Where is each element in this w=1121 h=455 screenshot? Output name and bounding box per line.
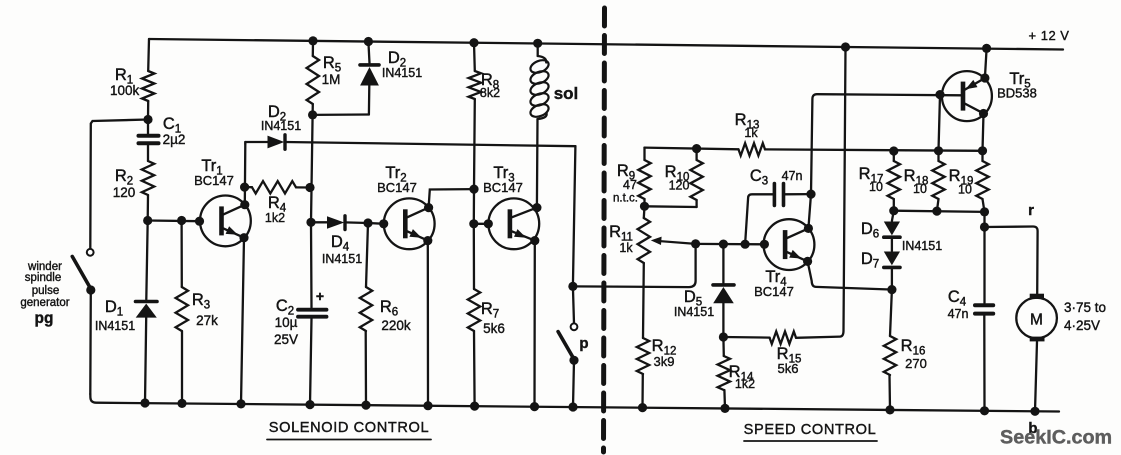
node Tr2 collector xyxy=(424,203,433,212)
node base at Tr1 xyxy=(195,217,204,226)
svg-text:R6: R6 xyxy=(380,298,398,319)
label winder spindle pulse generator pg xyxy=(20,261,69,327)
ground node D1 xyxy=(140,398,149,407)
wire R2 to base row xyxy=(147,195,150,221)
node Tr5 collector xyxy=(979,109,988,118)
label +12V xyxy=(1029,28,1070,43)
wire Tr2 emitter to ground xyxy=(427,241,430,406)
wire R5 node down to D4 node xyxy=(311,115,313,222)
svg-text:47: 47 xyxy=(623,178,637,192)
resistor R1 xyxy=(110,66,154,101)
svg-text:1k2: 1k2 xyxy=(265,211,285,225)
wire Tr3 emitter to ground xyxy=(533,241,536,407)
svg-text:120: 120 xyxy=(669,179,690,193)
svg-text:D4: D4 xyxy=(331,233,350,254)
ground node Tr2 emitter xyxy=(423,401,432,410)
svg-text:1k2: 1k2 xyxy=(735,377,755,391)
svg-text:1M: 1M xyxy=(322,72,341,87)
node R1/C1/stub xyxy=(143,115,152,124)
node Tr3 collector xyxy=(532,203,541,212)
diode D6 body xyxy=(861,220,942,253)
node Tr1 collector xyxy=(240,200,249,209)
node R17 top xyxy=(889,146,898,155)
wire R9/R10/R13 row xyxy=(645,148,739,150)
node Tr3 base edge xyxy=(484,219,493,228)
node R18 bottom xyxy=(932,207,941,216)
label b xyxy=(1028,420,1037,437)
node base row at Tr4 xyxy=(760,240,769,249)
capacitor C3 xyxy=(745,167,811,244)
node Tr2 base xyxy=(379,219,388,228)
potentiometer R11 xyxy=(609,206,650,263)
title SOLENOID CONTROL xyxy=(267,420,431,440)
node rail/D2v xyxy=(364,37,373,46)
node switch p top xyxy=(568,282,577,291)
wire Tr1 emitter to ground xyxy=(241,238,244,404)
node D4 left xyxy=(306,218,315,227)
node R19 bottom xyxy=(980,207,989,216)
watermark SeekIC.com xyxy=(1000,427,1112,449)
svg-text:BC147: BC147 xyxy=(754,284,794,299)
svg-text:270: 270 xyxy=(905,356,927,371)
resistor R12 xyxy=(637,337,677,408)
transistor Tr4 xyxy=(754,219,814,299)
svg-text:27k: 27k xyxy=(196,313,218,328)
node Tr2 emitter xyxy=(423,236,432,245)
wire R1 to C1 node xyxy=(147,101,149,120)
capacitor C4 xyxy=(948,227,994,411)
resistor R8 xyxy=(469,43,501,189)
svg-text:10µ: 10µ xyxy=(275,315,298,330)
svg-text:BC147: BC147 xyxy=(483,180,523,195)
node rail/sol xyxy=(533,39,542,48)
svg-text:p: p xyxy=(579,335,588,352)
svg-text:r: r xyxy=(1028,202,1034,219)
node base row / C3 xyxy=(741,240,750,249)
svg-text:25V: 25V xyxy=(274,332,298,347)
svg-text:4·25V: 4·25V xyxy=(1064,318,1100,333)
wire Tr3 collector to sol xyxy=(536,119,539,208)
resistor R9 (n.t.c.) xyxy=(613,148,651,207)
capacitor C2 xyxy=(274,222,327,404)
ground node R14 xyxy=(720,404,729,413)
diode D4 xyxy=(311,216,368,266)
svg-text:+: + xyxy=(316,288,324,304)
ground node R12 xyxy=(638,403,647,412)
diode D5 xyxy=(674,244,734,337)
svg-text:3·75 to: 3·75 to xyxy=(1064,300,1106,315)
resistor R14 xyxy=(718,337,756,408)
node C3 right xyxy=(806,190,815,199)
svg-text:10: 10 xyxy=(913,182,927,196)
transistor Tr5 xyxy=(942,70,1037,121)
wire Tr1 collector up xyxy=(244,144,247,205)
transistor Tr1 xyxy=(194,157,251,246)
ground node Tr3 emitter xyxy=(530,402,539,411)
svg-text:5k6: 5k6 xyxy=(778,361,799,376)
wire Tr4 emitter to D7 node xyxy=(808,261,892,289)
node D4 right / R6 top xyxy=(363,218,372,227)
ground node R6 xyxy=(361,401,370,410)
svg-text:n.t.c.: n.t.c. xyxy=(613,193,638,205)
node rail/Tr5 xyxy=(982,44,991,53)
resistor R5 xyxy=(307,41,342,115)
wire Tr2 base xyxy=(368,222,384,225)
resistor R3 xyxy=(176,221,219,404)
node Tr2 collector / R8 xyxy=(469,185,478,194)
wire R1 top from rail xyxy=(147,39,150,71)
svg-text:generator: generator xyxy=(20,297,69,309)
ground node R16 xyxy=(885,405,894,414)
transistor Tr3 xyxy=(483,164,539,249)
wire Tr1 base row xyxy=(148,219,200,222)
title SPEED CONTROL xyxy=(744,422,877,441)
wire r to motor xyxy=(985,226,1038,293)
svg-text:pg: pg xyxy=(35,310,54,327)
svg-text:BD538: BD538 xyxy=(997,86,1037,101)
wire Tr5 emitter to rail xyxy=(985,48,987,78)
node R18 top xyxy=(934,146,943,155)
switch p xyxy=(558,286,588,407)
node base row / wiper xyxy=(691,239,700,248)
node Tr3 emitter xyxy=(530,236,539,245)
node base/R3 xyxy=(177,216,186,225)
diode D7 xyxy=(861,250,900,290)
svg-text:SOLENOID CONTROL: SOLENOID CONTROL xyxy=(269,420,429,436)
svg-text:R7: R7 xyxy=(481,300,499,321)
resistor R17 xyxy=(859,151,900,211)
ground node C2 xyxy=(305,400,314,409)
wire Tr3 base xyxy=(474,223,489,225)
svg-text:R16: R16 xyxy=(901,337,926,358)
svg-text:IN4151: IN4151 xyxy=(382,66,422,80)
svg-text:SPEED CONTROL: SPEED CONTROL xyxy=(744,422,877,438)
resistor R16 xyxy=(884,290,927,410)
node D7 / Tr4 emitter / R16 xyxy=(887,285,896,294)
svg-text:BC147: BC147 xyxy=(377,180,417,195)
diode D2 (horizontal) xyxy=(245,103,575,149)
node Tr3 base column xyxy=(469,219,478,228)
ground rail (bottom) xyxy=(90,394,1059,412)
wire Tr5 collector to R19 xyxy=(983,114,984,151)
node Tr5 base riser xyxy=(935,90,944,99)
svg-text:120: 120 xyxy=(113,185,136,200)
resistor R19 xyxy=(949,151,989,212)
wire R19 bottom to r node xyxy=(983,212,985,227)
svg-text:sol: sol xyxy=(554,84,579,103)
resistor R4 xyxy=(245,181,310,225)
wire Tr2 collector to R8 column xyxy=(429,189,474,208)
svg-text:D6: D6 xyxy=(861,220,879,241)
svg-text:100k: 100k xyxy=(110,83,140,98)
wire Tr4 base row xyxy=(696,243,765,246)
svg-text:1k: 1k xyxy=(744,126,758,140)
power rail +12V xyxy=(149,39,1063,50)
resistor R6 xyxy=(360,223,411,405)
svg-text:10: 10 xyxy=(958,183,972,197)
svg-text:IN4151: IN4151 xyxy=(95,319,135,333)
node R4 left xyxy=(240,183,249,192)
solenoid sol xyxy=(529,43,579,119)
svg-text:D7: D7 xyxy=(861,250,879,271)
wire stub to pg switch xyxy=(90,120,148,249)
node R10 top xyxy=(692,144,701,153)
motor M xyxy=(1016,294,1106,412)
wire R11 to R12 xyxy=(642,263,645,338)
resistor R18 xyxy=(904,151,945,211)
switch pg (winder spindle pulse generator) xyxy=(72,249,95,394)
node base/D1 xyxy=(143,216,152,225)
node rail/R15 riser xyxy=(841,42,850,51)
capacitor C1 xyxy=(139,115,186,161)
node R19 top xyxy=(978,146,987,155)
node R5/D2v junction xyxy=(308,110,317,119)
svg-text:47n: 47n xyxy=(782,169,803,183)
wire R17/R18/R19 bottom tie xyxy=(894,211,985,212)
wire signal line down to switch p xyxy=(573,146,576,286)
node R4 right xyxy=(305,183,314,192)
node Tr5 emitter xyxy=(980,73,989,82)
wire switch p to Tr4 base node xyxy=(573,244,696,287)
wire Tr4 collector up / to Tr5 base xyxy=(808,94,960,228)
resistor R10 xyxy=(665,149,703,207)
diode D2 (vertical, at rail) xyxy=(360,42,422,115)
node R17 bottom xyxy=(889,206,898,215)
node Tr4 collector xyxy=(804,224,813,233)
resistor R7 xyxy=(468,224,505,406)
resistor R15 xyxy=(723,47,845,376)
wire R8 node to Tr3 base node xyxy=(473,189,476,224)
ground node C4 xyxy=(980,406,989,415)
diode D1 xyxy=(95,221,157,404)
wire Tr5 base riser to R18 xyxy=(939,95,941,151)
node Tr1 emitter xyxy=(239,233,248,242)
svg-text:pulse: pulse xyxy=(32,285,60,297)
node Tr4 emitter xyxy=(803,257,812,266)
svg-text:IN4151: IN4151 xyxy=(322,252,362,266)
node R9 bottom xyxy=(640,202,649,211)
wire D2v to R5 bottom xyxy=(313,113,369,116)
diode D6 xyxy=(892,211,894,221)
node D5/R14/R15 xyxy=(719,332,728,341)
svg-text:2µ2: 2µ2 xyxy=(163,132,186,147)
svg-text:8k2: 8k2 xyxy=(480,86,500,100)
svg-text:spindle: spindle xyxy=(25,272,61,284)
node rail/R8 xyxy=(469,38,478,47)
svg-text:IN4151: IN4151 xyxy=(261,119,301,133)
node r wire xyxy=(980,222,989,231)
node base row / D5 xyxy=(719,240,728,249)
svg-text:SeekIC.com: SeekIC.com xyxy=(1000,427,1112,449)
wire R13 to R17/R18/R19 row xyxy=(765,149,983,150)
node rail/R5 xyxy=(308,36,317,45)
svg-text:R3: R3 xyxy=(192,291,210,312)
label r xyxy=(1028,202,1034,219)
svg-text:C3: C3 xyxy=(750,167,768,188)
svg-text:47n: 47n xyxy=(948,307,969,321)
svg-text:IN4151: IN4151 xyxy=(674,305,714,319)
svg-text:220k: 220k xyxy=(381,318,411,333)
svg-text:IN4151: IN4151 xyxy=(902,239,942,253)
svg-text:M: M xyxy=(1030,312,1043,329)
wiper arrow R11 xyxy=(651,237,696,245)
ground node R7 xyxy=(470,402,479,411)
svg-text:3k9: 3k9 xyxy=(654,354,675,369)
svg-text:C4: C4 xyxy=(948,288,967,309)
resistor R2 xyxy=(113,161,154,200)
svg-text:5k6: 5k6 xyxy=(483,321,505,336)
section divider (dashed) xyxy=(604,8,605,452)
wire R9/R10 bottom tie xyxy=(645,205,697,208)
svg-text:+ 12 V: + 12 V xyxy=(1029,28,1070,43)
ground node motor xyxy=(1030,407,1039,416)
svg-text:10: 10 xyxy=(869,180,883,194)
svg-text:BC147: BC147 xyxy=(194,173,234,188)
transistor Tr2 xyxy=(377,164,434,249)
svg-text:D1: D1 xyxy=(105,298,123,319)
ground node R3 xyxy=(177,399,186,408)
ground node Tr1 emitter xyxy=(236,399,245,408)
resistor R13 xyxy=(735,111,765,156)
svg-text:1k: 1k xyxy=(619,241,633,255)
ground node switch p xyxy=(568,402,577,411)
